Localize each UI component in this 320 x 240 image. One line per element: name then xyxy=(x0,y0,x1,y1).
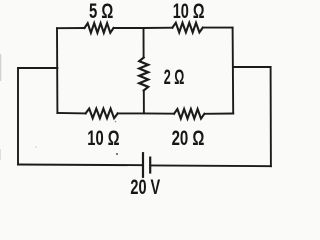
resistor R3 2ohm xyxy=(139,58,148,91)
battery V1 long plate xyxy=(142,153,144,177)
scan smudge left edge xyxy=(0,54,1,81)
wire bottom left segment xyxy=(57,112,85,114)
svg-text:5 Ω: 5 Ω xyxy=(89,0,113,23)
wire outer right vertical xyxy=(270,67,272,166)
wire left stub to outer loop xyxy=(18,67,57,69)
wire outer bottom right to battery xyxy=(150,164,271,167)
wire right stub to outer loop xyxy=(233,66,271,68)
svg-text:2 Ω: 2 Ω xyxy=(164,66,185,89)
wire bottom right segment xyxy=(204,113,233,115)
ink speck xyxy=(115,121,117,123)
svg-text:10 Ω: 10 Ω xyxy=(87,127,119,150)
svg-text:20 Ω: 20 Ω xyxy=(172,127,205,150)
wire outer left vertical xyxy=(17,68,19,165)
ink speck xyxy=(116,153,118,155)
resistor R1 5ohm xyxy=(85,23,114,33)
wire bottom middle segment xyxy=(118,112,174,114)
resistor R5 20ohm xyxy=(174,109,204,119)
resistor R2 10ohm top xyxy=(172,23,202,33)
scan smudge bottom left edge xyxy=(0,149,1,160)
wire top middle segment xyxy=(114,27,173,29)
resistor R4 10ohm bottom xyxy=(86,109,118,119)
wire middle branch lower xyxy=(143,91,145,114)
wire top right segment xyxy=(203,27,233,29)
wire top left segment xyxy=(57,27,85,29)
svg-text:10 Ω: 10 Ω xyxy=(173,0,205,23)
wire outer bottom left to battery xyxy=(18,164,143,167)
wire inner left edge xyxy=(56,28,58,113)
paper background xyxy=(0,0,281,201)
ink speck xyxy=(35,146,36,147)
wire middle branch upper xyxy=(143,28,145,58)
wire inner right edge xyxy=(232,28,235,114)
battery V1 short plate xyxy=(149,158,151,173)
svg-text:20 V: 20 V xyxy=(130,176,160,199)
